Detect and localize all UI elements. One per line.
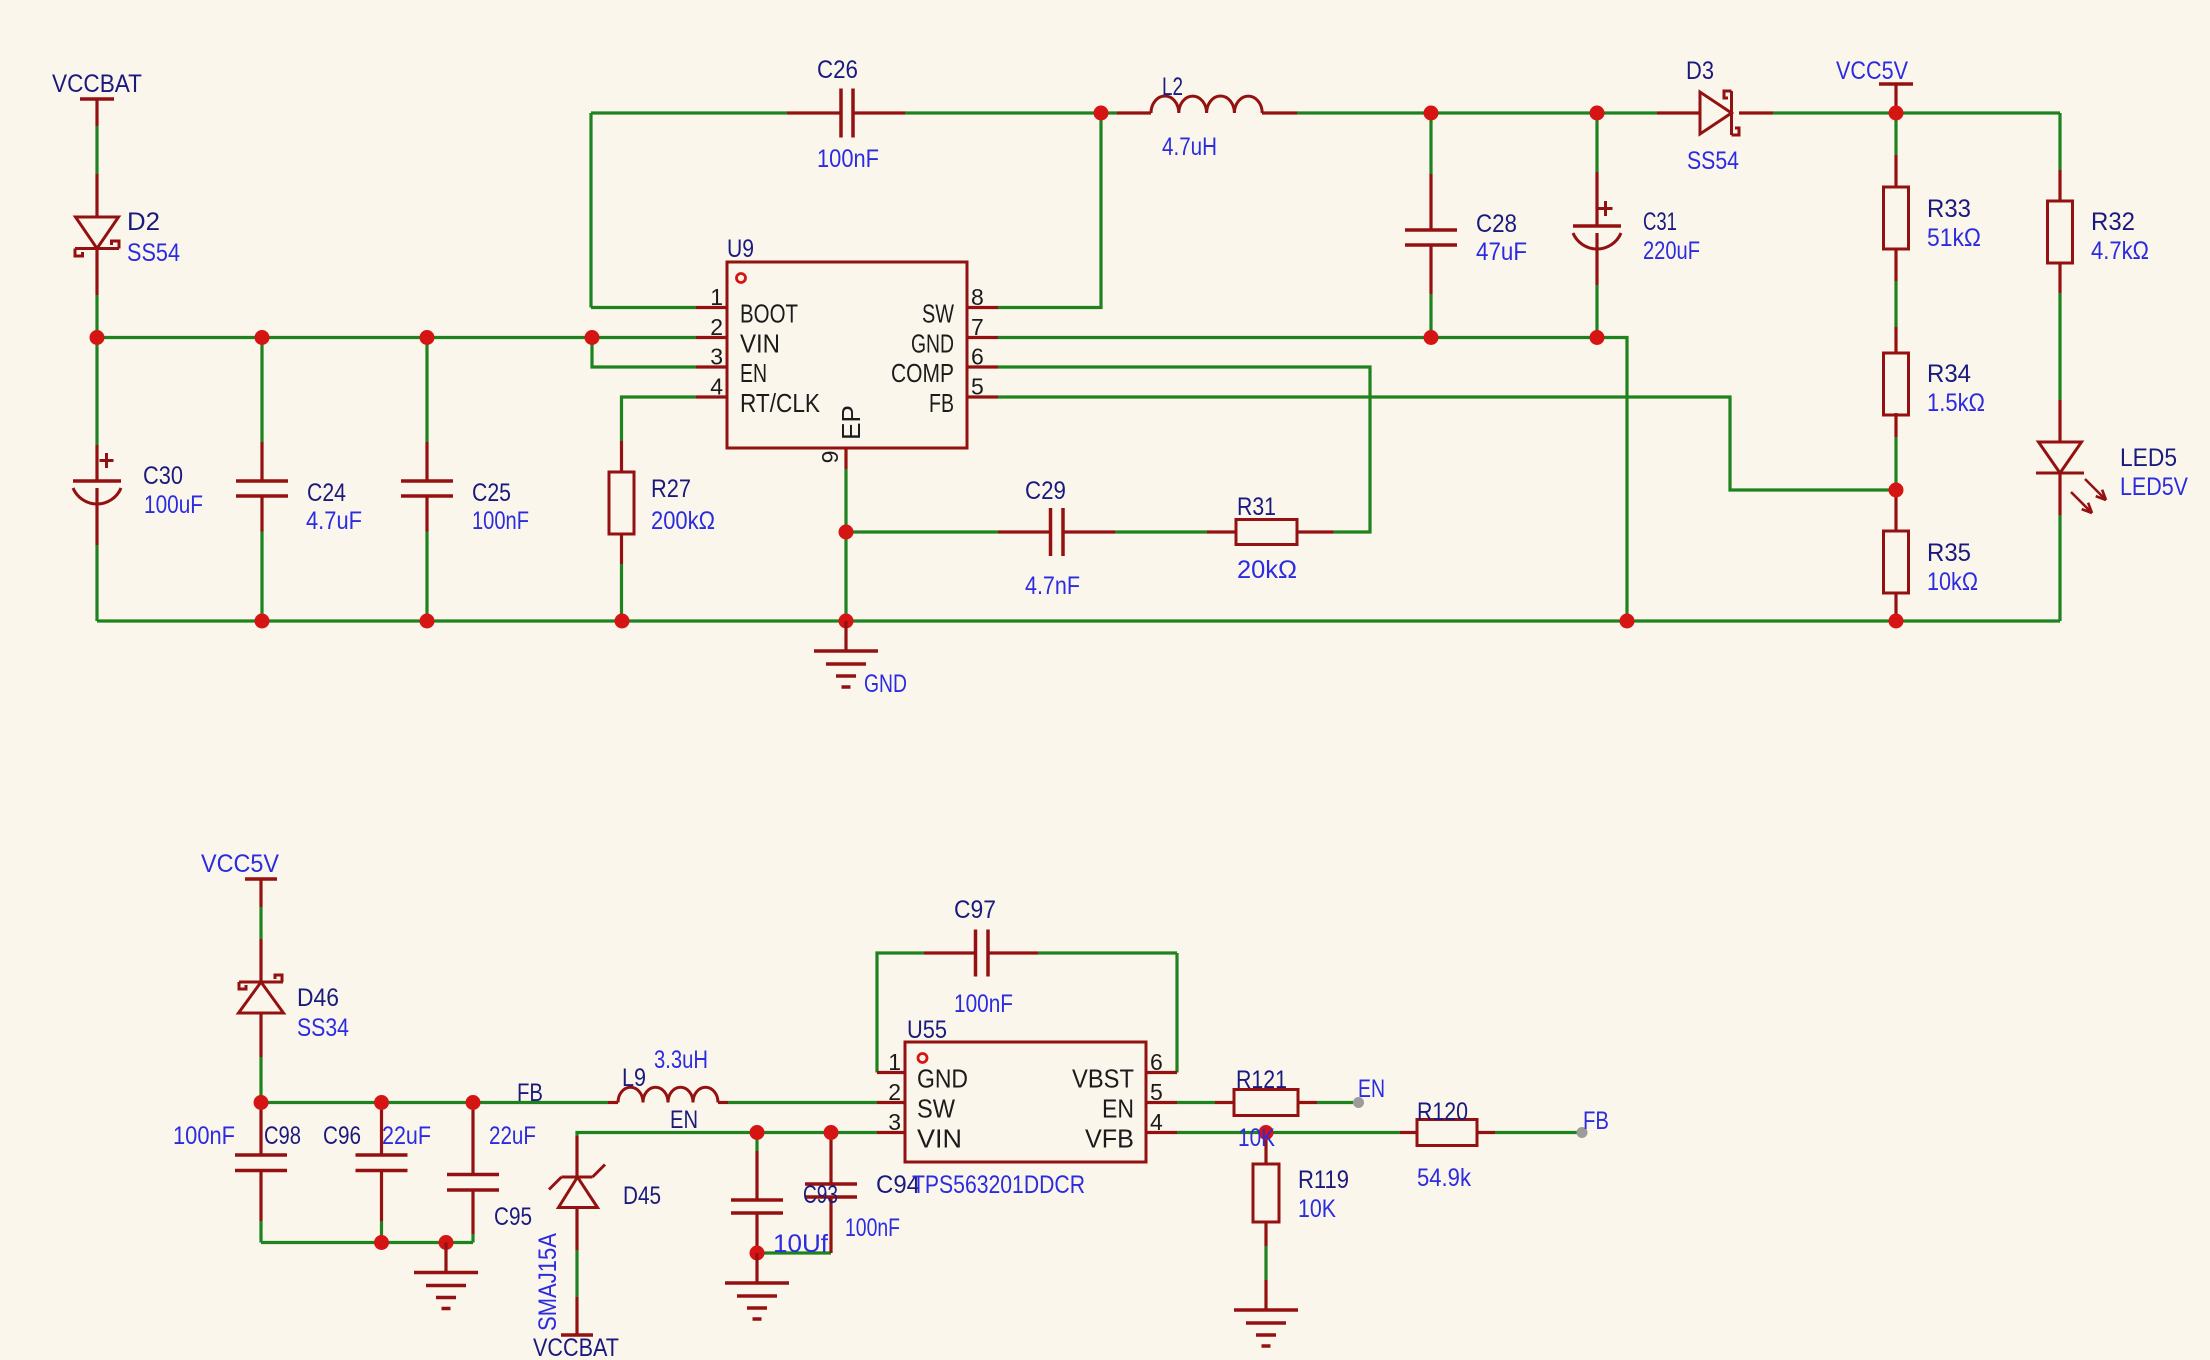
svg-text:SS54: SS54 [1687,147,1739,175]
svg-text:C97: C97 [954,896,996,924]
svg-text:C30: C30 [143,462,183,490]
svg-text:EN: EN [1358,1075,1385,1103]
svg-text:3.3uH: 3.3uH [654,1046,708,1074]
svg-text:FB: FB [929,388,954,418]
svg-text:VCCBAT: VCCBAT [533,1334,619,1360]
svg-text:C28: C28 [1476,210,1517,238]
svg-text:U9: U9 [727,235,754,263]
svg-text:1: 1 [888,1049,901,1075]
svg-text:TPS563201DDCR: TPS563201DDCR [912,1171,1085,1199]
svg-text:47uF: 47uF [1476,238,1527,266]
svg-text:4: 4 [1150,1109,1163,1135]
svg-text:R31: R31 [1237,493,1276,521]
svg-text:GND: GND [911,329,954,359]
svg-text:VBST: VBST [1072,1064,1134,1094]
svg-text:10Uf: 10Uf [773,1230,828,1258]
svg-text:VFB: VFB [1085,1124,1134,1154]
svg-text:RT/CLK: RT/CLK [740,388,821,418]
svg-text:FB: FB [517,1079,543,1107]
svg-text:2: 2 [888,1079,901,1105]
svg-text:C25: C25 [472,479,511,507]
svg-text:GND: GND [864,670,907,698]
svg-text:L2: L2 [1162,73,1183,101]
svg-text:SS54: SS54 [127,239,180,267]
svg-text:4: 4 [710,374,723,400]
svg-text:8: 8 [971,284,984,310]
svg-text:D2: D2 [127,208,160,236]
svg-text:SW: SW [917,1094,955,1124]
svg-text:R32: R32 [2091,208,2135,236]
svg-text:22uF: 22uF [382,1122,431,1150]
svg-text:4.7uH: 4.7uH [1162,133,1217,161]
svg-text:22uF: 22uF [489,1122,536,1150]
svg-text:R121: R121 [1236,1066,1287,1094]
svg-text:100nF: 100nF [845,1214,900,1242]
svg-text:5: 5 [1150,1079,1163,1105]
svg-text:10kΩ: 10kΩ [1927,568,1978,596]
svg-text:100nF: 100nF [472,507,529,535]
svg-text:9: 9 [817,451,843,464]
svg-text:L9: L9 [622,1064,646,1092]
svg-text:C26: C26 [817,56,858,84]
svg-text:10K: 10K [1298,1195,1336,1223]
svg-text:C24: C24 [307,479,346,507]
svg-text:220uF: 220uF [1643,237,1700,265]
svg-text:VIN: VIN [740,329,780,359]
svg-text:100uF: 100uF [144,491,203,519]
svg-text:C96: C96 [323,1122,361,1150]
svg-text:4.7uF: 4.7uF [306,507,362,535]
svg-text:10K: 10K [1238,1124,1275,1152]
svg-text:4.7kΩ: 4.7kΩ [2091,237,2149,265]
svg-text:1: 1 [710,284,723,310]
svg-text:C31: C31 [1643,208,1677,236]
svg-text:GND: GND [917,1064,968,1094]
svg-text:54.9k: 54.9k [1417,1164,1471,1192]
svg-text:LED5V: LED5V [2120,473,2188,501]
svg-text:R35: R35 [1927,539,1971,567]
svg-text:R33: R33 [1927,195,1971,223]
svg-text:SMAJ15A: SMAJ15A [534,1233,562,1331]
svg-text:VCCBAT: VCCBAT [52,70,142,98]
svg-text:EN: EN [1102,1094,1134,1124]
svg-text:2: 2 [710,314,723,340]
svg-text:3: 3 [710,344,723,370]
svg-text:D46: D46 [297,984,339,1012]
svg-text:100nF: 100nF [954,990,1013,1018]
svg-text:5: 5 [971,374,984,400]
svg-text:6: 6 [971,344,984,370]
svg-text:EN: EN [740,358,767,388]
svg-text:R120: R120 [1417,1098,1468,1126]
svg-text:LED5: LED5 [2120,444,2177,472]
svg-text:VCC5V: VCC5V [1836,57,1908,85]
svg-text:C95: C95 [494,1203,532,1231]
svg-text:C29: C29 [1025,477,1066,505]
svg-text:SS34: SS34 [297,1014,349,1042]
svg-text:200kΩ: 200kΩ [651,507,715,535]
svg-text:C93: C93 [803,1181,838,1209]
svg-text:EN: EN [670,1106,698,1134]
svg-text:7: 7 [971,314,984,340]
svg-text:VCC5V: VCC5V [201,850,279,878]
svg-text:U55: U55 [907,1016,947,1044]
svg-text:SW: SW [922,299,954,329]
svg-text:20kΩ: 20kΩ [1237,556,1297,584]
svg-text:BOOT: BOOT [740,299,798,329]
svg-text:VIN: VIN [917,1124,962,1154]
svg-text:COMP: COMP [891,358,954,388]
svg-text:1.5kΩ: 1.5kΩ [1927,389,1985,417]
svg-text:100nF: 100nF [173,1122,235,1150]
svg-text:3: 3 [888,1109,901,1135]
svg-text:100nF: 100nF [817,145,879,173]
svg-text:C98: C98 [264,1122,301,1150]
svg-text:D3: D3 [1686,57,1714,85]
svg-text:4.7nF: 4.7nF [1025,572,1080,600]
svg-text:D45: D45 [623,1182,661,1210]
svg-text:R27: R27 [651,475,691,503]
svg-text:FB: FB [1583,1107,1609,1135]
svg-text:51kΩ: 51kΩ [1927,224,1981,252]
svg-text:EP: EP [836,405,866,440]
svg-text:R34: R34 [1927,360,1971,388]
svg-text:6: 6 [1150,1049,1163,1075]
svg-text:R119: R119 [1298,1166,1349,1194]
